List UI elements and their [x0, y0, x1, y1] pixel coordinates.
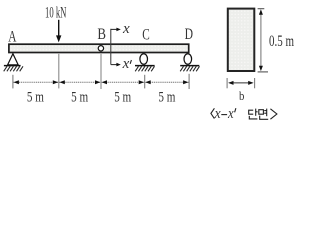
- svg-text:x: x: [227, 106, 234, 122]
- section arrow x (top): [111, 28, 121, 32]
- svg-text:0.5 m: 0.5 m: [269, 31, 294, 50]
- extension line load point: [58, 54, 60, 89]
- ground line C: [135, 65, 155, 67]
- svg-text:A: A: [8, 28, 17, 45]
- ground line D: [180, 65, 199, 67]
- ground line A: [4, 65, 21, 67]
- extension tick C: [144, 75, 146, 89]
- caption minus: [221, 114, 227, 116]
- cross-section rectangle: [228, 9, 255, 71]
- 0.5m dimension top tick: [258, 8, 265, 10]
- svg-text:b: b: [239, 89, 244, 103]
- svg-text:x: x: [214, 106, 221, 122]
- caption prime: [235, 108, 236, 112]
- caption hangul DAN: [249, 109, 258, 119]
- hinge circle at B: [98, 46, 103, 51]
- svg-text:C: C: [142, 26, 150, 43]
- dimension arrowheads: [14, 80, 189, 84]
- beam ABCD: [9, 44, 189, 52]
- load arrow 10 kN: [56, 20, 61, 43]
- b dimension arrow: [228, 81, 254, 85]
- svg-text:D: D: [185, 26, 193, 43]
- svg-text:5 m: 5 m: [71, 90, 88, 106]
- caption hangul MYEON: [259, 109, 268, 120]
- dimension line (dotted): [13, 81, 189, 83]
- svg-text:x: x: [122, 21, 130, 37]
- pin support A: [8, 54, 19, 65]
- extension tick A: [12, 75, 14, 89]
- roller support D: [184, 54, 192, 65]
- section arrow x' (bottom): [111, 63, 121, 67]
- svg-text:5 m: 5 m: [158, 90, 175, 106]
- 0.5m dimension bottom tick: [258, 71, 268, 73]
- extension tick D: [188, 74, 190, 89]
- caption right angle bracket: [270, 109, 277, 119]
- caption left angle bracket: [211, 108, 215, 118]
- svg-text:5 m: 5 m: [27, 90, 44, 106]
- extension line B: [100, 54, 102, 89]
- ground hatch D: [180, 66, 199, 71]
- ground hatch A: [4, 66, 23, 71]
- svg-text:B: B: [97, 26, 106, 43]
- ground hatch C: [135, 66, 154, 71]
- b dimension left tick: [226, 78, 228, 88]
- b dimension right tick: [254, 78, 256, 88]
- svg-text:x: x: [122, 56, 130, 72]
- roller support C: [140, 54, 148, 65]
- section line x-x': [110, 29, 112, 65]
- svg-text:5 m: 5 m: [114, 90, 131, 106]
- svg-text:10 kN: 10 kN: [45, 4, 67, 21]
- 0.5m dimension arrow: [259, 9, 263, 71]
